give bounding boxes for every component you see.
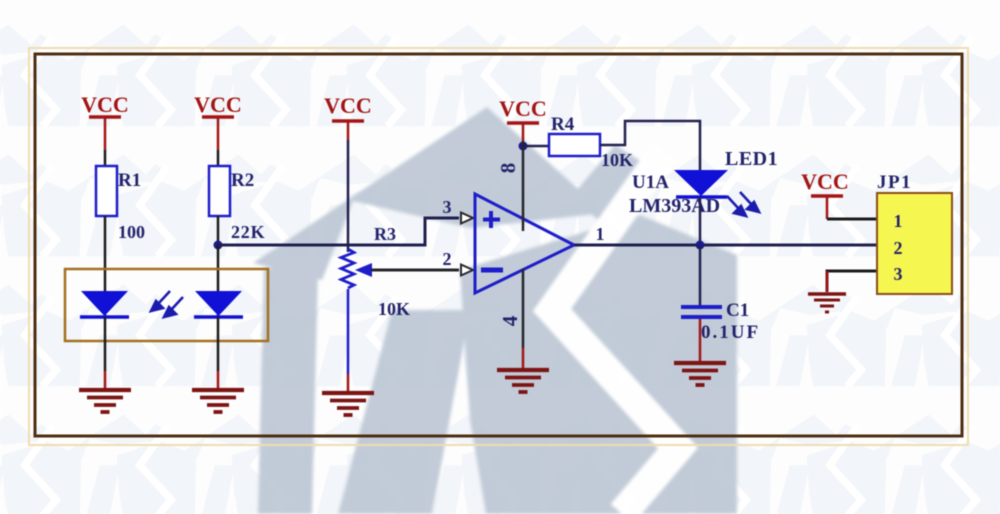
wire junction to R4 (523, 145, 549, 148)
svg-text:U1A: U1A (632, 172, 669, 193)
resistor R2 (209, 166, 265, 242)
wire JP1 pin3 to ground (827, 271, 877, 292)
svg-text:2: 2 (443, 249, 452, 269)
ground JP1 (808, 294, 846, 312)
ground D1 (79, 390, 131, 412)
svg-text:VCC: VCC (194, 92, 242, 117)
photodiode D2 (194, 291, 243, 317)
svg-text:R2: R2 (231, 170, 254, 191)
wire net R2 junction to pin3 riser (218, 218, 459, 245)
potentiometer wiper arrow (355, 263, 372, 277)
pin arrow 3 (461, 213, 473, 224)
wire wiper to pin2 (371, 269, 459, 272)
svg-text:3: 3 (894, 264, 903, 284)
svg-text:R4: R4 (551, 114, 575, 135)
wire junction to C1 (699, 245, 702, 305)
svg-text:VCC: VCC (81, 92, 129, 117)
wire VCC to JP1 pin1 (827, 218, 877, 221)
node junction VCC pin8 R4 (519, 142, 528, 151)
wire VCC to R2 (217, 150, 220, 166)
wire VCC to R3 top (347, 140, 350, 252)
wire output net U1A to JP1 (574, 244, 877, 247)
svg-text:R1: R1 (118, 170, 141, 191)
ground U1A (497, 370, 549, 392)
wire R4 to LED1 (600, 121, 700, 170)
node junction output LED1 C1 (696, 241, 705, 250)
pin arrow 2 (461, 265, 473, 276)
svg-text:C1: C1 (726, 300, 749, 321)
svg-text:100: 100 (118, 222, 145, 242)
connector JP1 (877, 172, 952, 294)
wire R1 to photodiode D1 (104, 216, 107, 316)
potentiometer R3 zigzag (341, 249, 354, 288)
wire VCC to R1 (104, 150, 107, 166)
svg-text:VCC: VCC (499, 96, 547, 121)
svg-text:R3: R3 (374, 224, 396, 244)
svg-text:VCC: VCC (801, 169, 849, 194)
svg-text:1: 1 (596, 224, 605, 244)
wire LED1 to output net (699, 197, 702, 245)
node junction R2 output (214, 241, 223, 250)
wire R3 bottom to ground (347, 289, 350, 392)
capacitor C1 (681, 300, 760, 343)
resistor R1 (96, 166, 145, 242)
power symbol VCC net JP1 (801, 169, 849, 219)
svg-text:8: 8 (496, 163, 520, 174)
wire junction to photodiode D2 (217, 245, 220, 316)
LED1 emission arrows (727, 192, 759, 216)
ground C1 (674, 363, 726, 385)
svg-text:LM393AD: LM393AD (629, 195, 720, 217)
power symbol VCC net U1A (499, 96, 547, 141)
svg-text:4: 4 (498, 315, 522, 326)
svg-text:2: 2 (894, 238, 903, 258)
ground R3 (322, 393, 374, 415)
pin 8 wire (522, 141, 525, 231)
wire D2 to ground (217, 317, 220, 389)
svg-text:10K: 10K (378, 299, 410, 319)
wire R2 to junction (217, 216, 220, 245)
svg-text:JP1: JP1 (877, 172, 912, 193)
svg-text:22K: 22K (231, 222, 265, 242)
svg-text:0.1UF: 0.1UF (701, 322, 760, 343)
resistor R4 (549, 114, 633, 170)
wire C1 to ground (699, 319, 702, 362)
svg-text:1: 1 (894, 211, 903, 231)
svg-text:VCC: VCC (324, 93, 372, 118)
ground D2 (192, 390, 244, 412)
svg-text:3: 3 (443, 197, 452, 217)
wire D1 to ground (104, 317, 107, 389)
light arrows opto (151, 291, 183, 317)
power symbol VCC net R3 (324, 93, 372, 140)
svg-text:10K: 10K (601, 150, 633, 170)
svg-text:LED1: LED1 (725, 148, 778, 170)
power symbol VCC net R2 (194, 92, 242, 150)
op-amp U1A (475, 194, 574, 293)
power symbol VCC net R1 (81, 92, 129, 150)
pin 4 wire (522, 269, 525, 369)
optocoupler box (65, 269, 268, 341)
photodiode D1 (80, 291, 129, 317)
LED LED1 (674, 170, 728, 197)
